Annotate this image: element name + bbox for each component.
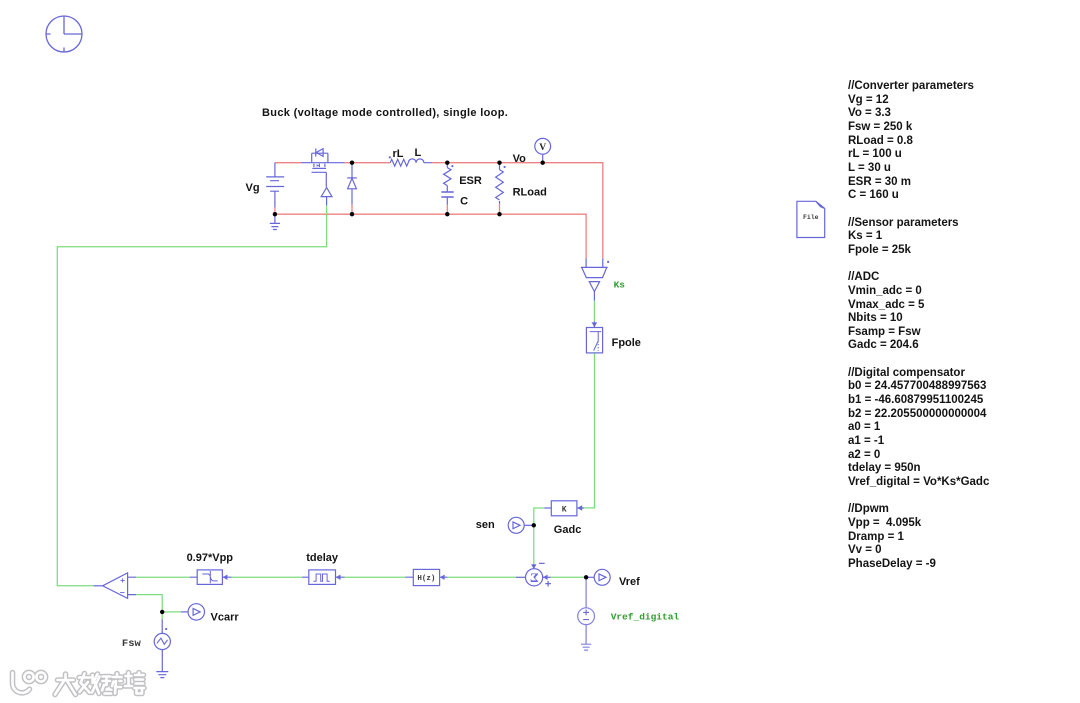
wire: sum output stub: [516, 576, 526, 578]
arrow into Fpole: [592, 322, 598, 327]
svg-text:0.97*Vpp: 0.97*Vpp: [187, 552, 234, 564]
resistor ESR: [444, 168, 451, 186]
svg-text:Vg: Vg: [246, 182, 260, 194]
saturation block 0.97*Vpp: [197, 570, 222, 585]
inductor L: [408, 159, 423, 163]
svg-text:Vref_digital: Vref_digital: [611, 612, 680, 623]
wire: comparator output stub: [94, 585, 103, 587]
svg-text:File: File: [803, 214, 819, 221]
wire: Fpole input stub: [593, 322, 595, 328]
svg-text:Vcarr: Vcarr: [211, 612, 240, 624]
ac source Fsw: [154, 633, 170, 649]
probe Vcarr: [188, 604, 204, 620]
junction: node sen: [532, 523, 536, 527]
wire: Ks output to Fpole: [593, 301, 595, 322]
junction: Vg negative to bottom rail: [273, 212, 277, 216]
svg-text:K: K: [562, 505, 567, 514]
wire: voltmeter stem: [542, 154, 544, 162]
wire: tdelay block stubs: [302, 576, 345, 578]
wire: Vg leads: [274, 163, 276, 224]
probe sen: [508, 517, 524, 533]
MOSFET channel arrow: [317, 164, 320, 166]
body diode of Q1: [315, 148, 317, 156]
arrow into Gadc: [577, 505, 582, 511]
svg-text:tdelay: tdelay: [306, 552, 339, 564]
arrow into sum top: [531, 564, 536, 569]
junction: C branch bottom: [445, 212, 449, 216]
transfer function block Fpole: [586, 328, 602, 353]
wire: Ks output stub: [593, 292, 595, 301]
svg-text:+: +: [545, 579, 551, 591]
sum junction: [526, 569, 543, 586]
transport delay block tdelay: [309, 570, 336, 585]
voltmeter V: [535, 138, 551, 154]
wire: blue conductor segments: [94, 154, 603, 671]
wire: Gadc input stub: [577, 507, 584, 509]
wire: Vref_digital leads (light blue): [585, 577, 587, 644]
ground (below Fsw): [156, 672, 168, 678]
file block: [797, 201, 825, 237]
gain block Gadc (K): [551, 501, 577, 516]
arrowheads (signal direction): [223, 164, 598, 580]
svg-text:V: V: [539, 143, 546, 153]
wire: green signal wires: [57, 205, 594, 619]
svg-text:RLoad: RLoad: [513, 186, 547, 198]
svg-text:Ks: Ks: [614, 280, 626, 291]
junction: node Vref: [584, 575, 588, 579]
sensor Ks trapezoid: [581, 267, 608, 277]
parameter text panel: [848, 80, 989, 572]
junction: carrier node: [160, 610, 164, 614]
clock generator icon: [46, 16, 82, 52]
wire: RLoad branch leads: [499, 163, 501, 204]
wire: MOSFET gate stub: [326, 197, 328, 206]
wire: H(z) to tdelay: [345, 576, 406, 578]
wire: sum right input from Vref node: [551, 576, 587, 578]
svg-text:−: −: [120, 588, 125, 598]
wire: Gadc output stub: [544, 507, 551, 509]
wire: Ks sensor input stubs: [586, 258, 603, 267]
arrow into sum right: [543, 575, 548, 580]
wire: ESR/C branch leads: [446, 163, 448, 205]
svg-text:Fpole: Fpole: [612, 337, 641, 349]
sensor Ks gain triangle: [589, 282, 599, 292]
polarity dots: [165, 156, 609, 630]
svg-text:Buck (voltage mode controlled): Buck (voltage mode controlled), single l…: [262, 107, 508, 119]
transistor Q1 MOSFET: [312, 153, 328, 162]
svg-text:rL: rL: [393, 148, 404, 160]
wire: tdelay to saturation: [231, 576, 301, 578]
junction: RLoad branch bottom: [497, 212, 501, 216]
resistor rL: [390, 159, 408, 166]
wire: sum top input stub: [533, 564, 535, 568]
wire: sen probe stub: [524, 524, 534, 526]
svg-text:+: +: [120, 575, 125, 585]
wire: Fsw source to ground: [161, 650, 163, 672]
wire: comparator input stubs: [128, 577, 137, 594]
dc source Vg battery plates: [266, 177, 284, 191]
arrow into H(z): [440, 575, 445, 581]
ground (below Vref_digital): [581, 644, 591, 650]
svg-text:Gadc: Gadc: [554, 524, 582, 536]
svg-text:−: −: [539, 558, 545, 570]
arrow into saturation: [223, 575, 228, 581]
svg-text:sen: sen: [476, 519, 495, 531]
wire: carrier node down to Fsw: [161, 612, 163, 619]
wire: Vref probe stub: [586, 576, 594, 578]
svg-text:Vo: Vo: [513, 153, 527, 165]
wire: comparator minus input from carrier node: [136, 595, 181, 612]
wire: Gadc output to sen node to sum top input: [534, 508, 544, 564]
wire: saturation block stubs: [190, 576, 232, 578]
wire: Fpole output down to Gadc input: [584, 353, 594, 508]
gate signal port triangle of Q1: [321, 188, 332, 197]
svg-text:ESR: ESR: [459, 175, 482, 187]
svg-text:H(z): H(z): [417, 575, 435, 583]
junction: ESR branch top: [445, 161, 449, 165]
svg-text:Σ: Σ: [530, 570, 539, 585]
probe Vref: [594, 569, 610, 585]
wire: diode D1 leads: [351, 163, 353, 205]
junction: D1 anode bottom rail: [350, 212, 354, 216]
svg-text:Vref: Vref: [619, 576, 640, 588]
arrow into tdelay: [336, 575, 341, 581]
ground (below Vg): [270, 223, 280, 229]
junction: switch node top rail: [350, 161, 354, 165]
watermark logo and text: [13, 672, 145, 694]
diode D1 (freewheeling): [347, 177, 357, 179]
resistor RLoad: [496, 170, 504, 200]
junction: RLoad branch top: [497, 161, 501, 165]
junction: node Vo voltmeter tap: [541, 161, 545, 165]
wire: sum right input stub: [543, 576, 551, 578]
wire: Vcarr junction to Fsw: [161, 619, 163, 633]
wire: top rail red segments: [275, 163, 603, 259]
wire: Vcarr probe stub: [181, 611, 188, 613]
wire: gate drive loop from comparator output: [57, 205, 326, 585]
svg-text:C: C: [460, 195, 468, 207]
svg-text:Fsw: Fsw: [122, 638, 142, 650]
dc source Vref_digital: [578, 608, 595, 625]
wire: saturation to comparator plus input: [136, 576, 190, 578]
wire: H(z) block stubs: [405, 576, 447, 578]
comparator: [103, 573, 128, 599]
svg-text:L: L: [415, 147, 422, 159]
capacitor C plates: [441, 192, 453, 197]
wire: sum output to H(z): [447, 576, 516, 578]
discrete transfer function block H(z): [413, 569, 439, 585]
